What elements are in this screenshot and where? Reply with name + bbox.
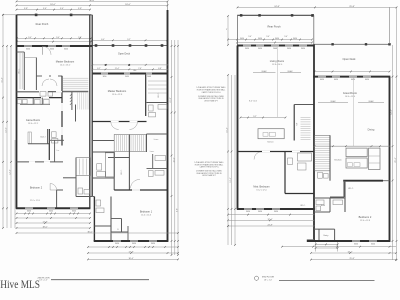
svg-text:36'-0": 36'-0": [89, 0, 95, 2]
porch dimension row right plan: [227, 36, 313, 40]
left plan rear porch top edge wall: [2, 14, 92, 16]
svg-text:3050: 3050: [72, 211, 76, 213]
note block 1: [196, 86, 226, 102]
great room label: [343, 91, 357, 98]
stairwell walls left unit: [48, 92, 88, 122]
svg-text:Kitchen: Kitchen: [334, 159, 342, 162]
svg-text:3050: 3050: [151, 243, 155, 245]
stairs right plan: [315, 135, 330, 180]
open deck dimension row: [314, 71, 391, 73]
svg-text:5'-4": 5'-4": [284, 36, 288, 38]
svg-text:5'-4": 5'-4": [248, 36, 252, 38]
bath label right plan: [321, 204, 325, 207]
bath2 walls left unit: [28, 129, 64, 160]
svg-text:12'-2": 12'-2": [10, 169, 12, 174]
closet bottom wall: [17, 91, 40, 93]
svg-text:5'-4": 5'-4": [266, 36, 270, 38]
great room front wall: [313, 77, 390, 81]
sheet label 2 title: [262, 277, 274, 282]
svg-text:3050: 3050: [258, 211, 262, 213]
rear porch label: [36, 23, 49, 26]
svg-text:3050: 3050: [115, 243, 119, 245]
bath cluster left of bedroom 1: [94, 197, 111, 242]
master bedroom label (left unit): [56, 61, 74, 67]
svg-text:3050: 3050: [293, 38, 297, 40]
ceiling height note: [249, 100, 257, 102]
stairwell faint treads: [70, 93, 88, 110]
right porch top edge: [237, 14, 314, 16]
left sheet west dimension lines: [2, 14, 15, 229]
svg-text:13'-2": 13'-2": [347, 252, 352, 254]
bedroom 1 label: [140, 210, 153, 216]
svg-text:5'-8": 5'-8": [78, 37, 82, 39]
porch column 1: [35, 14, 38, 17]
west rotated dim text 2: [6, 127, 8, 132]
svg-text:3050: 3050: [26, 48, 30, 50]
svg-text:25'-8": 25'-8": [349, 258, 354, 260]
svg-text:21'-8": 21'-8": [170, 97, 172, 102]
bath right unit walls band3: [92, 152, 129, 190]
svg-text:5'-4": 5'-4": [60, 8, 64, 10]
kitchen counter right: [369, 148, 381, 169]
svg-text:CARRY THRU ROOF &: CARRY THRU ROOF &: [201, 91, 221, 94]
bath partition wall horizontal: [17, 97, 63, 99]
left-part bottom dimension row 2: [16, 217, 91, 219]
svg-text:13'-2 x 12'-0: 13'-2 x 12'-0: [256, 190, 266, 192]
bath3 fixtures: [78, 188, 90, 194]
right sheet west rotated text 2: [230, 177, 232, 182]
master bedroom 2 south wall: [92, 121, 146, 123]
svg-text:W.I.C.: W.I.C.: [158, 92, 160, 98]
linen room: [147, 134, 168, 152]
porch dimension row 2 right plan: [236, 42, 313, 44]
open deck dimension row left plan: [91, 39, 168, 41]
Hive MLS watermark: [0, 277, 40, 291]
svg-text:Living Room: Living Room: [270, 59, 284, 63]
svg-text:3050: 3050: [301, 48, 305, 50]
living room beam left: [253, 70, 276, 73]
svg-text:W.I.C.: W.I.C.: [121, 169, 123, 175]
svg-text:3050: 3050: [27, 211, 31, 213]
bath cluster fixtures: [316, 200, 343, 211]
svg-text:LESS THAN 5FT: LESS THAN 5FT: [204, 99, 219, 102]
right-part bottom dimension row 1: [87, 246, 179, 248]
bedroom 3 sublabel: [30, 200, 40, 202]
svg-text:Great Room: Great Room: [343, 91, 357, 95]
right plan top dimension line: [237, 6, 398, 8]
sheet label 1 underline: [51, 279, 149, 281]
porch lower dimension row: [16, 41, 92, 43]
powder room fixtures: [318, 172, 328, 178]
kitchen upper counter: [346, 148, 367, 157]
svg-text:BEAM: BEAM: [331, 100, 336, 103]
svg-text:12'-4": 12'-4": [230, 177, 232, 182]
svg-text:3050: 3050: [275, 38, 279, 40]
bath2 label left unit: [40, 135, 45, 138]
wic closet left unit: [17, 52, 25, 90]
bath2 east rooms: [147, 154, 168, 177]
svg-text:W.I.C.: W.I.C.: [348, 188, 354, 190]
svg-text:5'-4": 5'-4": [56, 37, 60, 39]
right unit interior dim row 2: [91, 68, 168, 70]
svg-text:Laun.: Laun.: [150, 151, 155, 153]
kitchen counter line: [314, 145, 391, 147]
bedroom 3 label: [30, 187, 43, 190]
svg-text:3050: 3050: [240, 38, 244, 40]
svg-text:W.I.C.: W.I.C.: [300, 205, 306, 207]
svg-text:3050: 3050: [103, 76, 107, 78]
svg-text:5'-8": 5'-8": [78, 8, 82, 10]
bedroom 1 top wall: [114, 189, 167, 191]
svg-text:18'-4": 18'-4": [128, 258, 133, 260]
pantry stairs block: [294, 105, 314, 141]
svg-text:CARRY THRU ROOF &: CARRY THRU ROOF &: [199, 166, 219, 169]
svg-text:1/4" = 1'-0": 1/4" = 1'-0": [39, 280, 48, 282]
sheet label 1 title: [38, 277, 50, 281]
living room interior dimension row: [240, 116, 287, 118]
dimension line, left plan top row 3: [16, 8, 91, 10]
svg-text:36'-0": 36'-0": [87, 232, 92, 234]
open deck right edge: [389, 7, 391, 44]
wic2 narrow: [121, 135, 129, 191]
door swing arc master bedroom entry: [43, 46, 52, 55]
great room center line: [353, 78, 355, 147]
master bedroom 2 label: [108, 90, 126, 96]
svg-text:6'-8": 6'-8": [158, 68, 162, 70]
closet hatch under hall: [28, 132, 31, 144]
kitchen island: [346, 158, 367, 168]
svg-text:1/4" = 1'-0": 1/4" = 1'-0": [264, 279, 273, 281]
svg-text:Open Deck: Open Deck: [343, 57, 357, 61]
svg-text:Linen: Linen: [154, 139, 158, 141]
bedroom 2 label: [359, 215, 372, 222]
svg-text:3050: 3050: [50, 48, 54, 50]
note block 2: [194, 161, 224, 177]
tub right unit: [105, 153, 114, 177]
svg-text:Master Bedroom: Master Bedroom: [56, 61, 74, 64]
right sheet rotated dim text 2: [395, 157, 397, 162]
left sheet east dimension lines: [171, 40, 179, 256]
svg-text:11'-4": 11'-4": [115, 68, 120, 70]
left plan right unit front wall: [92, 74, 168, 78]
svg-text:BEAM: BEAM: [262, 70, 267, 73]
svg-text:5'-8": 5'-8": [24, 8, 28, 10]
hall side wall: [61, 76, 63, 146]
rear porch label (right plan): [267, 24, 281, 28]
svg-text:12'-4 x 11'-8: 12'-4 x 11'-8: [360, 220, 370, 222]
right-part bottom dimension row 3: [87, 258, 179, 260]
svg-text:18'-0": 18'-0": [42, 227, 47, 229]
svg-text:8'-0" CLG: 8'-0" CLG: [249, 100, 257, 102]
svg-text:3050: 3050: [125, 76, 129, 78]
right porch column 2: [258, 14, 261, 17]
svg-text:9'-2": 9'-2": [253, 116, 257, 118]
door arc bedroom1 entry: [131, 179, 140, 188]
svg-text:15'-0": 15'-0": [173, 157, 175, 162]
svg-text:12'-0 x 11'-6: 12'-0 x 11'-6: [141, 215, 151, 217]
right sheet rotated dim text 1: [391, 109, 393, 114]
left unit bottom exterior wall: [16, 208, 90, 212]
svg-text:16'-4": 16'-4": [227, 127, 229, 132]
svg-text:13'-4 x 12'-8: 13'-4 x 12'-8: [112, 94, 122, 96]
right plan lower-left dimension rows: [227, 214, 315, 227]
svg-text:24'-8": 24'-8": [274, 6, 280, 8]
kitchen label: [334, 159, 342, 162]
dining label: [368, 128, 375, 131]
living room beam right: [280, 70, 301, 73]
pantry walls: [330, 181, 354, 197]
right unit bottom exterior wall: [307, 240, 391, 246]
living room center line: [277, 47, 279, 117]
svg-text:31'-4": 31'-4": [2, 77, 4, 82]
entry walls right plan: [314, 229, 335, 241]
svg-text:W.I.C.: W.I.C.: [19, 68, 21, 74]
svg-text:3050: 3050: [287, 48, 291, 50]
svg-text:Open Deck: Open Deck: [118, 53, 131, 56]
right porch column 1: [240, 14, 243, 17]
porch interior dimension row: [16, 37, 92, 39]
door swing arcs at closet: [42, 79, 57, 86]
svg-text:6'-0": 6'-0": [101, 39, 105, 41]
left-part bottom dimension row 1: [16, 213, 91, 215]
svg-text:25'-8": 25'-8": [349, 6, 355, 8]
svg-text:5'-4": 5'-4": [28, 37, 32, 39]
west rotated dim text 1: [2, 77, 4, 82]
svg-text:17'-8": 17'-8": [42, 222, 47, 224]
svg-text:3050: 3050: [246, 211, 250, 213]
right unit interior dim row 1: [91, 64, 168, 66]
svg-text:Entry: Entry: [324, 234, 329, 237]
svg-text:7'-6": 7'-6": [138, 68, 142, 70]
svg-text:Hive MLS: Hive MLS: [0, 277, 40, 291]
wic label left unit right plan: [300, 205, 306, 207]
svg-text:3050: 3050: [258, 38, 262, 40]
closet 2 left unit: [24, 58, 36, 91]
stair/bath column walls: [285, 152, 314, 194]
svg-text:5'-4": 5'-4": [43, 8, 47, 10]
svg-text:3050: 3050: [49, 211, 53, 213]
hall wall at stairs: [92, 140, 114, 142]
tub and bath fixtures right plan left unit: [288, 153, 312, 170]
svg-text:9'-8": 9'-8": [177, 208, 179, 212]
right porch left edge: [237, 15, 239, 45]
closet hatched block east: [76, 158, 91, 176]
svg-text:3050: 3050: [64, 48, 68, 50]
dimension line, left plan top row 2: [16, 4, 169, 6]
svg-text:2668: 2668: [147, 76, 151, 78]
left plan full width bottom dimension row: [16, 232, 179, 234]
svg-text:2668: 2668: [273, 48, 277, 50]
hall upper wall segments: [36, 75, 62, 77]
porch column 2: [70, 14, 73, 17]
right porch column 4: [311, 14, 314, 17]
svg-text:Mstr. Bedroom: Mstr. Bedroom: [253, 186, 269, 189]
svg-text:Bath: Bath: [321, 204, 325, 207]
bath cluster walls right plan: [314, 181, 345, 212]
open deck floor edge: [315, 43, 391, 45]
great room beam right: [358, 100, 384, 103]
right plan left exterior wall: [237, 46, 239, 210]
wic right unit: [146, 75, 168, 116]
svg-text:BEAM: BEAM: [288, 70, 293, 73]
svg-text:Kitchen: Kitchen: [267, 141, 273, 144]
svg-text:BEAM: BEAM: [369, 100, 374, 103]
stair treads upper left unit: [63, 78, 88, 90]
east rotated dim text 2: [173, 157, 175, 162]
linen room small: [55, 140, 60, 162]
sheet label 2 marker circle: [254, 276, 258, 280]
svg-text:12'-4": 12'-4": [267, 219, 272, 221]
right plan party wall: [313, 44, 315, 242]
game room label: [26, 119, 40, 125]
svg-text:Master Bedroom: Master Bedroom: [108, 90, 126, 93]
svg-text:3050: 3050: [258, 48, 262, 50]
left plan right exterior wall: [167, 2, 169, 242]
right plan front wall (living unit): [237, 46, 314, 50]
bath band3 fixtures: [97, 164, 106, 177]
right sheet west rotated text: [227, 127, 229, 132]
door arc master bedroom right plan: [254, 152, 262, 160]
left-part bottom dimension row 4: [16, 227, 91, 229]
stairs right unit: [114, 135, 146, 152]
open deck label: [343, 57, 357, 61]
bath2 fixtures left unit: [52, 132, 58, 143]
svg-text:14'-2 x 13'-0: 14'-2 x 13'-0: [60, 65, 70, 67]
bedroom 1 left wall: [92, 197, 94, 242]
svg-text:3050: 3050: [245, 48, 249, 50]
closet L near bedroom1: [111, 219, 128, 242]
svg-text:9'-2": 9'-2": [127, 39, 131, 41]
right-part bottom dimension row 2: [87, 252, 179, 254]
svg-text:6050: 6050: [351, 79, 355, 81]
right plan right exterior wall: [389, 77, 391, 242]
svg-text:Bedroom 2: Bedroom 2: [30, 187, 43, 190]
svg-text:Rear Porch: Rear Porch: [267, 24, 281, 28]
left-part bottom dimension row 3: [16, 222, 91, 224]
door arcs hall right unit: [111, 122, 138, 130]
left plan left exterior wall: [16, 15, 18, 209]
living unit bottom exterior wall: [237, 209, 315, 213]
svg-text:11'-2 x 12'-6: 11'-2 x 12'-6: [30, 200, 40, 202]
west rotated dim text 3: [10, 169, 12, 174]
bath3 walls: [76, 158, 92, 197]
svg-text:6050: 6050: [334, 79, 338, 81]
svg-text:LESS THAN 5FT: LESS THAN 5FT: [202, 174, 217, 177]
svg-text:18'-0": 18'-0": [50, 4, 56, 6]
svg-text:6050: 6050: [320, 79, 324, 81]
bath1 right unit fixtures: [149, 105, 168, 117]
stoop dimension stubs: [315, 242, 339, 252]
right plan porch left dimension line: [226, 15, 229, 46]
deck edge posts: [95, 44, 164, 47]
bedroom closet L wall: [57, 190, 63, 208]
upper hall wall: [63, 177, 76, 179]
svg-text:13'-6 x 12'-2: 13'-6 x 12'-2: [28, 123, 38, 125]
kitchenette counter: [258, 129, 284, 144]
svg-text:6'-2": 6'-2": [97, 68, 101, 70]
kitchen rear wall: [343, 180, 389, 182]
svg-text:3050: 3050: [354, 243, 358, 245]
svg-text:24'-8": 24'-8": [267, 225, 272, 227]
right plan right dimension columns: [392, 7, 398, 261]
laundry 2 label: [150, 151, 155, 153]
svg-text:3050: 3050: [132, 243, 136, 245]
east rotated dim text 3: [177, 208, 179, 212]
svg-text:3050: 3050: [274, 211, 278, 213]
bedroom 1 bottom exterior wall: [94, 241, 169, 245]
laundry fixtures: [18, 99, 50, 104]
bedroom2 top wall: [17, 161, 64, 163]
right plan bottom dimension rows: [281, 246, 397, 261]
east rotated dim text 1: [170, 97, 172, 102]
sheet label 2 underline: [279, 279, 375, 281]
living room label: [270, 59, 284, 66]
door arc bedroom 2: [50, 184, 57, 191]
dimension line, left plan overall width: [16, 0, 169, 2]
svg-text:Bedroom 1: Bedroom 1: [140, 210, 153, 213]
laundry partition walls: [20, 98, 50, 105]
svg-text:18'-0": 18'-0": [125, 4, 131, 6]
svg-text:15'-8 x 14'-0: 15'-8 x 14'-0: [272, 64, 282, 66]
bath fixtures small corridor: [40, 92, 53, 97]
svg-text:Rear Porch: Rear Porch: [36, 23, 49, 26]
svg-text:3050: 3050: [371, 243, 375, 245]
svg-text:Bath 2: Bath 2: [40, 135, 45, 138]
svg-text:Dining: Dining: [368, 128, 375, 131]
svg-text:Bedroom 2: Bedroom 2: [359, 215, 372, 219]
right porch column 3: [291, 14, 294, 17]
attic access labels: [133, 69, 136, 72]
open deck label (left plan): [118, 53, 131, 56]
right porch right edge: [313, 15, 315, 44]
svg-text:17'-8": 17'-8": [128, 252, 133, 254]
svg-text:19'-6": 19'-6": [6, 127, 8, 132]
svg-text:Game Room: Game Room: [26, 119, 40, 122]
great room beam left: [318, 100, 348, 103]
open deck edge line (left plan): [92, 45, 167, 47]
right plan left dimension columns: [227, 74, 236, 246]
living unit room divider wall: [238, 151, 315, 153]
master bedroom label right plan: [253, 186, 269, 192]
left plan front exterior wall (left unit): [16, 46, 92, 50]
left plan party wall (double): [90, 15, 92, 209]
svg-text:6050: 6050: [365, 79, 369, 81]
